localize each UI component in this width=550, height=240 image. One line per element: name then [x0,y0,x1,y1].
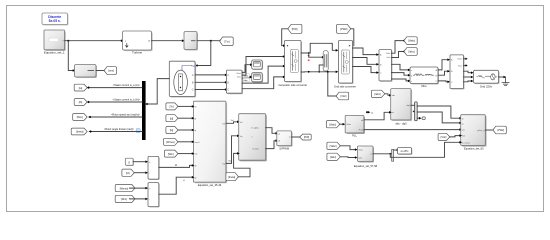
goto tag [Wm] [73,114,87,121]
svg-text:[PW]: [PW] [292,27,298,31]
from tag [id] [166,115,178,122]
from tag [Vabc] feed eq5758 [327,142,340,149]
svg-text:[Vabc]: [Vabc] [329,123,336,126]
svg-text:Vdc: Vdc [462,136,466,138]
wire meas1 c to converter [242,77,283,89]
from tag [Iabc] feed eq5758 [327,153,340,160]
stub Iabc out [464,65,466,67]
generator side converter [278,41,307,88]
source Grid 220V [474,70,500,88]
wire meas2 Vabc to tag [392,41,405,54]
wire meas2 Iabc to tag [392,52,405,58]
from tag [Vdc] feed eq60 [438,133,450,140]
svg-text:[theta]: [theta] [228,176,235,179]
svg-text:Vabc: Vabc [386,53,391,55]
wire Vdc tap [328,72,337,96]
svg-text:Equation_set_45-49: Equation_set_45-49 [198,183,222,187]
node Tm junction [210,40,212,42]
svg-text:V_beta: V_beta [252,148,259,151]
goto tag [ia] [74,84,87,91]
svg-text:Equation_set_60: Equation_set_60 [464,146,484,150]
block PLL [345,115,365,137]
svg-text:Iabc: Iabc [358,157,362,159]
svg-text:[Te]: [Te] [170,106,174,109]
mux bar [392,149,394,161]
wire grid conv C to meas2 [353,67,377,73]
icon warning badge [136,129,140,133]
wire machine B to meas1 [195,81,225,83]
wire wm block to tag [96,70,105,72]
wire grid conv A to meas2 [353,48,377,55]
wire meas2 c to filtre [392,79,409,81]
svg-text:[Wm]: [Wm] [168,153,174,156]
dc minus rail [301,71,336,73]
block SVPWM [277,131,293,151]
svg-text:ou i/Ps: ou i/Ps [401,150,409,153]
svg-text:<Rotor speed wm (rad/s)>: <Rotor speed wm (rad/s)> [111,113,141,116]
svg-text:PLL: PLL [352,134,357,138]
wire filtre A to meas3 [438,60,448,70]
wire V_beta to SVPWM [266,141,276,149]
wire tag to PLL [340,123,343,125]
powergui block [42,13,69,26]
wire meas3 a to grid source [464,71,472,73]
block Equation_set_45-49 [193,101,227,187]
wire const to sum1 [133,161,145,163]
wire SVPWM to PWM tag [292,136,301,138]
wire meas1 Vabc to scope1 [242,65,250,73]
svg-text:5e-05 s.: 5e-05 s. [49,19,61,23]
wire id to eq45 [178,117,192,119]
wire label Iabc [243,78,250,81]
wire demux d to eq60 in1 [417,106,459,118]
block Equation_set_60 [461,115,487,151]
wire demux 0 to terminator [417,117,419,119]
svg-text:Turbine: Turbine [132,51,142,55]
svg-text:Iabc: Iabc [237,76,241,78]
svg-text:wtz: wtz [462,129,465,132]
meas2 three-phase VI measurement [379,50,393,82]
wire Te to eq45 [178,105,192,107]
wire to capacitor plus [309,53,322,57]
goto tag [ib] [74,99,87,106]
block Equation_set_57-58 [354,146,378,168]
wire meas3 c to grid source [464,80,472,83]
svg-text:[wm]: [wm] [108,69,114,73]
svg-text:[Iabc]: [Iabc] [330,156,336,159]
svg-text:Vabc: Vabc [457,59,462,61]
wire Equation_set_1 to Turbine [65,40,121,42]
wire machine m to bus selector [148,79,170,104]
wire meas2 b to filtre [392,73,409,76]
svg-text:[Wm]: [Wm] [121,198,127,201]
wire eq5758 out to mux bar [373,153,391,155]
svg-text:wm: wm [194,154,198,156]
goto tag [Iabc] [404,48,417,56]
svg-text:[Vabc]: [Vabc] [330,145,337,148]
wire meas1 b to converter [242,66,283,83]
from tag [theta] feed dq-ab [226,173,239,181]
from tag [iq] [166,126,178,133]
goto tag [theta] [71,128,87,135]
wire Tm down to machine [198,41,211,66]
svg-text:[Wmes]: [Wmes] [166,141,175,144]
goto tag [PWM2] [493,126,506,134]
svg-text:[Wmes]: [Wmes] [120,187,129,190]
svg-text:Equation_set_57-58: Equation_set_57-58 [354,164,378,168]
block wm converter [75,65,98,79]
wire Wmes2 to sum2 [130,187,146,189]
wire filtre B to meas3 [438,71,448,75]
wire Wm to eq45 [178,153,192,155]
svg-text:<Rotor angle thetam (rad)>: <Rotor angle thetam (rad)> [104,128,135,131]
svg-text:Vabc: Vabc [236,73,241,75]
svg-text:[Vabc]: [Vabc] [408,40,415,43]
svg-text:[Vdc]: [Vdc] [441,136,447,139]
svg-text:<Stator current is_a (A)>: <Stator current is_a (A)> [113,84,141,87]
svg-text:Grid 220v: Grid 220v [480,85,493,89]
wire Tm gain to goto tag [197,40,220,42]
svg-text:[Iabc]: [Iabc] [375,93,381,96]
capacitor C dc-link [323,51,328,71]
svg-text:[iq]: [iq] [170,129,174,132]
display ou i/Ps [398,148,413,155]
wire PWM2 tag to grid converter g [351,29,354,46]
goto tag [Vabc] [404,37,417,45]
wire down to wm block [68,41,73,71]
svg-text:[PW2]: [PW2] [497,129,504,132]
wire bus out 4 [91,131,142,133]
wire Vabc tag to eq5758 [340,146,355,150]
wire bus out 1 [89,87,142,89]
from tag [PWM] [288,24,302,33]
svg-text:In_meas: In_meas [462,142,470,144]
svg-text:[Vdc]: [Vdc] [340,94,346,98]
wire meas2 a to filtre [392,64,409,70]
wire machine A to meas1 [195,74,225,76]
constant 0 [125,158,134,166]
wire eq45 Vd to dq-ab [226,122,237,124]
red polarity marks [308,55,310,56]
from tag [Wm] 2 [115,195,135,202]
svg-text:[ia]: [ia] [79,86,83,90]
block Turbine [123,31,153,55]
goto tag [wm] [104,67,116,75]
svg-text:Tm: Tm [191,64,195,68]
svg-text:id*: id* [194,166,197,168]
svg-text:[ib]: [ib] [79,100,83,104]
from tag [Wm] [164,150,178,157]
demux [415,102,418,121]
scope1 [252,60,263,70]
svg-text:[PW]: [PW] [304,136,310,139]
stub Vabc out [464,58,466,60]
wire demux q to eq60 in2 [417,112,459,123]
meas1 three-phase VI measurement [226,70,243,94]
wire label Vabc [243,74,250,78]
svg-text:[Id]: [Id] [126,172,130,175]
bus selector [142,81,146,140]
from tag [Iabc] feed abc-dq0 [371,90,384,97]
filtre block L1 [410,67,439,88]
svg-text:[theta]: [theta] [76,130,83,134]
from tag [Wmes] [164,138,178,145]
wire tag to abc-dq0 [385,94,389,96]
wire Wm2 to sum2 [130,198,146,200]
wire Wmes to eq45 [178,141,192,143]
wire P meas to eq60 In_meas [390,142,459,157]
wire theta to dq-ab [234,153,250,176]
wire capacitor minus to rail [319,65,323,72]
wire meas1 a to converter [242,57,283,76]
wire Iabc tag to eq5758 [340,156,355,159]
svg-text:[id]: [id] [170,117,174,120]
block abc-dq0 [391,89,412,126]
scope2 [252,73,263,83]
meas3 grid VI measurement [450,55,465,90]
wire bus out 2 [89,101,142,103]
svg-text:pulse_g: pulse_g [477,130,485,132]
svg-text:C: C [192,89,194,92]
svg-text:Iabc: Iabc [458,65,462,67]
wire machine C to meas1 [195,89,225,91]
wire dq0 to demux [411,104,414,106]
wire PLL freq to eq60 in3 [364,129,460,131]
svg-text:Vabc: Vabc [358,150,363,152]
subsystem Equation_set_1 [44,30,66,54]
wire PLL wt up to abc-dq0 [364,112,389,120]
wire eq45 Vq to dq-ab [226,136,237,164]
svg-text:filtre: filtre [421,84,427,88]
dc plus rail [301,43,336,53]
wire filtre C to meas3 [438,80,448,83]
from tag [PWM2] [337,24,351,33]
node junction at x68 [67,40,69,42]
svg-text:abc - dq0: abc - dq0 [395,121,407,125]
wire V_alpha to SVPWM [266,128,276,134]
wire meas1 Iabc to scope2 [242,77,250,78]
wire bus out 3 [91,116,143,118]
wire eq60 out to PWM2 tag [486,129,494,131]
wire sum1 to eq45 id* with label [159,165,192,167]
wire iq to eq45 [178,129,192,131]
svg-text:Generator side converter: Generator side converter [278,83,307,87]
svg-text:iq*: iq* [194,177,197,179]
sum2 block [148,183,160,208]
wire grid source to ground [499,76,504,78]
goto tag [Tm] [220,37,234,45]
ground [502,77,509,86]
wire sum2 to eq45 iq* [159,177,192,194]
svg-text:V_alpha: V_alpha [251,128,259,130]
wire Vdc tag to eq60 in4 [450,136,460,137]
wire Id tag to sum1 [134,172,145,174]
svg-text:Equation_set_1: Equation_set_1 [44,50,65,54]
wire bar to display [394,149,397,151]
goto tag [PWM] out [300,134,312,140]
goto tag [Vdc] [336,92,349,100]
wire grid conv B to meas2 [353,58,377,65]
svg-text:[Iabc]: [Iabc] [409,51,415,54]
svg-text:[PW2]: [PW2] [340,27,347,31]
wire meas3 b to grid source [464,76,472,78]
svg-text:Iabc: Iabc [387,57,391,59]
from tag [Vabc] feed PLL [326,121,339,128]
svg-text:Grid side converter: Grid side converter [334,85,356,89]
block dq to alpha-beta [239,114,267,162]
node wt with label [366,111,368,113]
block P to Tm converter [184,32,198,51]
terminator [422,117,425,120]
wire Turbine to Tm gain [152,40,183,42]
wire PWM tag to converter g [282,29,288,46]
svg-text:wmef: wmef [194,142,199,144]
PMSM machine U1 [169,61,196,97]
svg-text:Freq: Freq [359,129,364,132]
grid side converter [334,41,356,89]
svg-text:SVPWM: SVPWM [279,147,289,151]
from tag [Wmes] 2 [115,185,135,192]
svg-text:[Wm]: [Wm] [77,115,83,119]
svg-text:<Stator current is_b (A)>: <Stator current is_b (A)> [113,98,141,101]
from tag [Te] [166,103,178,110]
sum1 block [148,156,160,180]
from tag [Id] [122,169,134,176]
svg-text:[Tm]: [Tm] [224,40,229,44]
